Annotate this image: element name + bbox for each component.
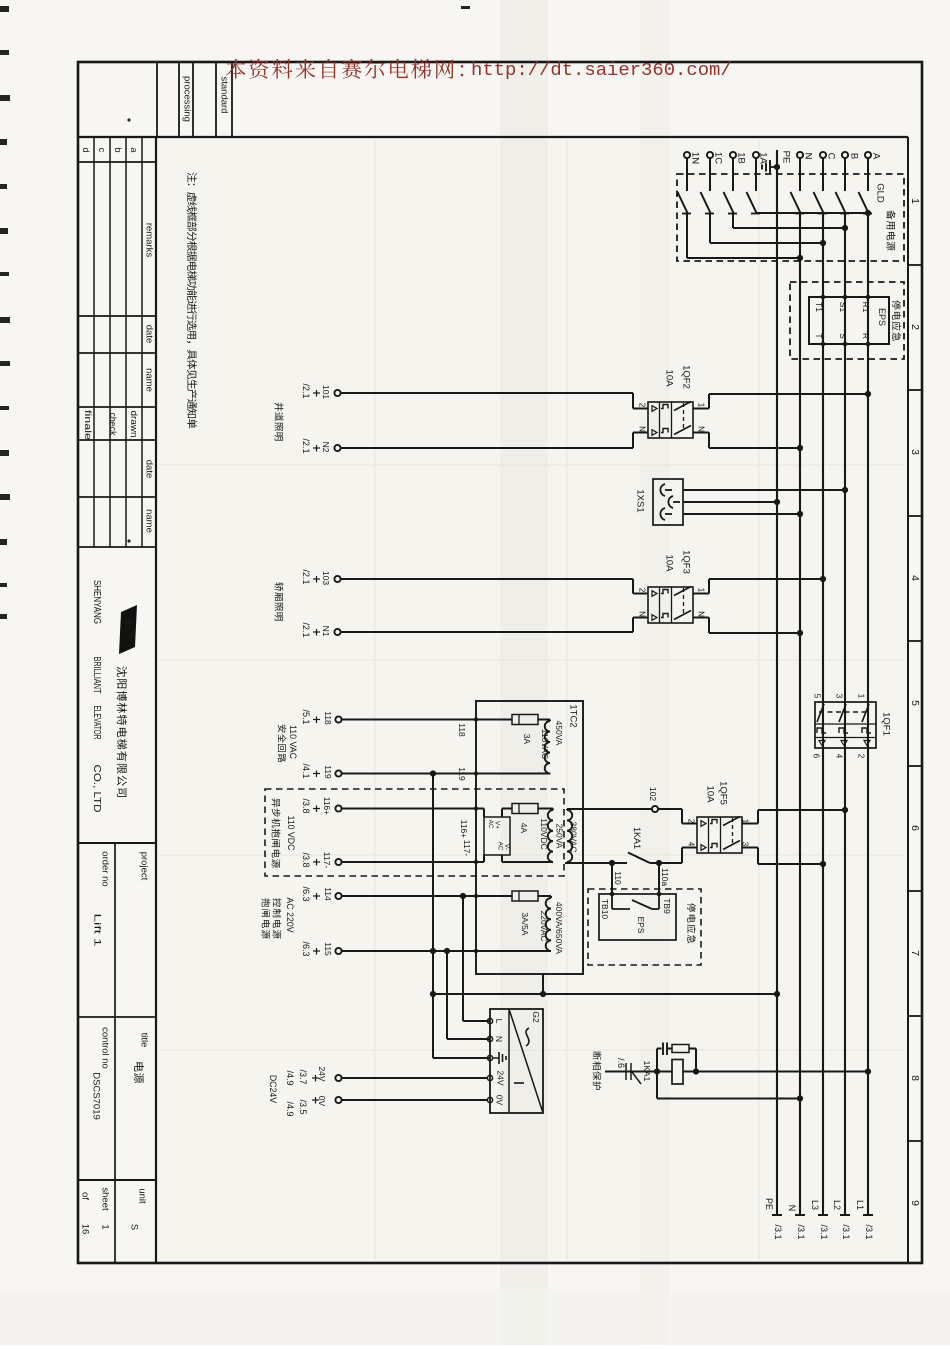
svg-text:AC: AC: [497, 842, 504, 851]
GLD chinese label beiyong dianyuan: [886, 210, 895, 250]
svg-text:110: 110: [613, 871, 623, 885]
svg-text:N: N: [494, 1036, 504, 1042]
wire 1XS1 top to B: [683, 487, 848, 493]
EPS dashed box: [790, 282, 904, 359]
company cell: SHENYANG BRILLIANT ELEVATOR CO., LTD: [91, 580, 103, 813]
svg-text:6: 6: [909, 825, 921, 831]
PE bonding wire: [430, 991, 780, 997]
zone numbers 1-9: [909, 198, 921, 1206]
svg-text:http://dt.saier360.com/: http://dt.saier360.com/: [471, 59, 732, 81]
svg-text:V+: V+: [494, 821, 501, 829]
svg-text:2: 2: [638, 588, 647, 593]
svg-text:/3.1: /3.1: [773, 1224, 783, 1239]
svg-text:remarks: remarks: [144, 223, 155, 258]
svg-text:T1: T1: [814, 302, 824, 312]
GLD backup-supply dashed box: [677, 174, 904, 261]
PE trunk wire: [776, 150, 778, 1215]
terminal 118: [301, 709, 342, 725]
A trunk wire: [867, 214, 869, 1216]
sheet 1 of 16: [80, 1187, 111, 1234]
wire 1C to C: [710, 214, 826, 247]
svg-text:/6.3: /6.3: [301, 886, 311, 901]
svg-text:2: 2: [909, 324, 921, 330]
svg-text:10A: 10A: [664, 555, 675, 573]
contact 1KA1 (phase-failure relay contact): [628, 827, 650, 863]
outgoing terminal L1 /3.1: [855, 1200, 874, 1240]
wire 1QF3 pinN to N: [693, 618, 803, 637]
wire 1N to N: [687, 214, 803, 262]
svg-text:220VAC: 220VAC: [539, 910, 549, 941]
svg-text:sheet: sheet: [100, 1187, 111, 1211]
svg-text:7: 7: [909, 950, 921, 956]
svg-text:117-: 117-: [322, 852, 332, 869]
wire 115: [342, 948, 551, 954]
title block right edge: [155, 137, 157, 1263]
switch GLD pole 1N: [678, 159, 692, 214]
switch GLD pole B: [836, 159, 850, 214]
svg-text:102: 102: [648, 787, 658, 801]
dashed box async brake supply: [265, 789, 564, 876]
svg-text:PE: PE: [764, 1198, 774, 1210]
svg-text:GLD: GLD: [875, 183, 886, 203]
wire N2: terminal to 1QF2 pinN: [341, 433, 648, 449]
terminal box TB10/TB9 EPS: [599, 892, 676, 940]
svg-text:C: C: [826, 153, 837, 160]
svg-text:date: date: [144, 460, 155, 479]
svg-text:title: title: [139, 1033, 150, 1048]
svg-text:/3.8: /3.8: [301, 798, 311, 813]
1TC2 label: [568, 704, 579, 727]
svg-text:8: 8: [909, 1075, 921, 1081]
note: dashed-frame parts selected per elevator function: [187, 172, 197, 428]
riser wire 115 to G2 N: [447, 951, 490, 1039]
control no value DSCS7019: [91, 1072, 102, 1120]
order no value Lift 1: [92, 914, 103, 947]
wire 102 to 1QF5 pin2: [659, 809, 698, 824]
terminal 0V: [285, 1096, 342, 1117]
svg-text:110 VAC: 110 VAC: [288, 725, 298, 760]
name label: [144, 368, 155, 392]
terminal N: [797, 152, 814, 160]
terminal 119: [301, 763, 342, 779]
svg-text:9: 9: [909, 1200, 921, 1206]
svg-text:1KA1: 1KA1: [642, 1061, 652, 1082]
svg-text:0V: 0V: [495, 1095, 505, 1106]
zone margin inner line: [907, 137, 909, 1263]
svg-text:/3.8: /3.8: [301, 852, 311, 867]
header label processing: [182, 76, 193, 122]
svg-text:/3.5: /3.5: [298, 1099, 308, 1114]
svg-text:A: A: [871, 153, 882, 160]
svg-text:1: 1: [697, 588, 706, 593]
label duanxiang baohu (phase failure protection): [593, 1052, 602, 1090]
svg-text:N1: N1: [321, 626, 331, 637]
1QF3 pin labels: [638, 588, 706, 617]
terminal 101: [301, 383, 341, 399]
svg-text:ELEVATOR: ELEVATOR: [91, 706, 103, 740]
svg-text:of: of: [80, 1192, 91, 1200]
wire coil to N: [657, 1072, 803, 1102]
svg-text:N: N: [697, 426, 706, 432]
bridge rectifier AC/V+ AC/V-: [484, 817, 510, 855]
name label 2: [144, 509, 155, 533]
zone separators: [908, 265, 922, 1141]
terminal 114: [301, 886, 342, 901]
svg-text:110VAC: 110VAC: [540, 729, 550, 759]
svg-text:/3.1: /3.1: [841, 1224, 851, 1239]
label jiaoxiang zhaoming (car lighting): [275, 582, 284, 620]
1QF1 label: [881, 712, 892, 736]
revision table lines: [78, 138, 156, 547]
svg-text:order no: order no: [100, 851, 111, 886]
red watermark: saier360: [226, 59, 732, 81]
EPS pin labels T S R: [814, 333, 871, 339]
svg-text:DC24V: DC24V: [268, 1075, 278, 1103]
wire 114: [342, 893, 512, 899]
terminal N2: [301, 438, 341, 453]
svg-text:B: B: [849, 153, 860, 159]
svg-text:16: 16: [80, 1224, 91, 1235]
svg-text:PE: PE: [781, 151, 792, 164]
svg-text:S1: S1: [838, 302, 848, 313]
drawn check finale labels: [83, 410, 139, 440]
1QF3 value labels: [664, 550, 692, 574]
wire 1QF3 pin1 to C: [693, 576, 826, 594]
svg-text:S: S: [838, 333, 848, 339]
transformer 1TC2 unit box: [476, 701, 583, 974]
svg-text:AC: AC: [487, 820, 494, 829]
svg-text:/4.9: /4.9: [285, 1070, 295, 1085]
remarks label: [144, 223, 155, 258]
svg-text:N: N: [787, 1205, 797, 1212]
svg-text:115: 115: [323, 942, 333, 956]
svg-text:1XS1: 1XS1: [635, 489, 646, 512]
label 110 VDC async brake supply: [272, 798, 296, 867]
svg-text:116+: 116+: [459, 820, 469, 839]
wire 1QF5 pin3 to C: [742, 848, 826, 868]
outgoing terminal L3 /3.1: [810, 1200, 829, 1240]
svg-text:1QF5: 1QF5: [718, 781, 729, 805]
svg-text:380VAC: 380VAC: [569, 821, 579, 852]
svg-text:/3.1: /3.1: [796, 1224, 806, 1239]
wire coil to L1/A: [696, 1068, 871, 1074]
terminal 102: [648, 787, 658, 812]
wire 1XS1 bottom to N: [683, 511, 803, 517]
switch GLD pole C: [814, 159, 828, 214]
svg-text:TB10: TB10: [600, 899, 610, 920]
terminal C: [820, 152, 837, 160]
svg-text:1C: 1C: [713, 152, 724, 164]
svg-text:119: 119: [323, 765, 333, 779]
1XS1 label: [635, 489, 646, 512]
svg-text:standard: standard: [219, 77, 230, 114]
wire transformer primary bottom: [565, 860, 627, 866]
scan edge marks: [0, 6, 470, 619]
breaker 1QF3 10A: [648, 587, 693, 624]
svg-text:L: L: [494, 1019, 504, 1024]
EPS bypass dashed box tingdian yingji: [588, 889, 701, 965]
svg-text:1: 1: [857, 694, 866, 699]
svg-text:/6.3: /6.3: [301, 941, 311, 956]
title value dianyuan: [134, 1062, 144, 1083]
svg-text:L3: L3: [810, 1200, 820, 1210]
svg-text:/2.1: /2.1: [301, 569, 311, 584]
svg-text:Lift 1: Lift 1: [92, 914, 103, 947]
breaker 1QF5 10A: [697, 817, 742, 854]
terminal 1A: [753, 152, 769, 165]
svg-text:R1: R1: [861, 302, 871, 313]
EPS chinese label tingdian yingji: [892, 300, 901, 341]
svg-text:DSCS7019: DSCS7019: [91, 1072, 102, 1120]
svg-text:110 VDC: 110 VDC: [286, 815, 296, 851]
svg-text:/4.9: /4.9: [285, 1101, 295, 1116]
svg-text:114: 114: [323, 887, 333, 901]
terminal 1C: [707, 152, 724, 164]
riser earth bus 119/115 to G2 earth: [433, 774, 490, 1059]
svg-text:1N: 1N: [690, 152, 701, 164]
date label 2: [144, 460, 155, 479]
terminal 116+: [301, 797, 342, 816]
transformer frame earth stub: [540, 974, 546, 997]
wire 117-: [342, 840, 484, 864]
svg-text:118: 118: [457, 723, 467, 737]
svg-text:1QF2: 1QF2: [681, 365, 692, 389]
svg-text:/2.1: /2.1: [301, 383, 311, 398]
wire 1QF2 pin1 to A: [693, 391, 871, 409]
svg-text:4: 4: [835, 754, 844, 759]
wire 24V output: [342, 1077, 487, 1079]
svg-text:T: T: [814, 333, 824, 338]
1QF5 value labels: [705, 781, 729, 805]
wire 1B to B: [733, 214, 848, 232]
label jingdao zhaoming (shaft lighting): [275, 403, 284, 441]
N trunk wire: [799, 214, 801, 1216]
svg-text:c: c: [97, 148, 107, 153]
project label: [139, 852, 150, 881]
svg-text:4: 4: [687, 842, 696, 847]
svg-text:AC 220V: AC 220V: [285, 897, 295, 932]
PSU G2: [487, 1009, 543, 1113]
svg-text:5: 5: [909, 700, 921, 706]
wire 119: [341, 767, 551, 781]
terminal A: [865, 152, 882, 160]
svg-text:R: R: [861, 333, 871, 339]
EPS label: [877, 308, 887, 326]
svg-text:10A: 10A: [705, 786, 716, 804]
contact TB10-TB9: [612, 894, 659, 909]
svg-text:b: b: [113, 147, 123, 152]
breaker 1QF1 (3-pole): [815, 702, 876, 748]
svg-text:400VA/650VA: 400VA/650VA: [554, 902, 564, 954]
control no label: [100, 1027, 111, 1069]
svg-text:name: name: [144, 509, 155, 533]
svg-text:119: 119: [457, 767, 467, 781]
switch GLD pole 1C: [701, 159, 715, 214]
C trunk wire: [822, 214, 824, 1216]
header band cell dividers: [157, 62, 232, 137]
order no label: [100, 851, 111, 886]
wire 1XS1 mid to PE: [683, 499, 780, 505]
header band bottom line: [78, 136, 908, 138]
1QF5 pin labels: [687, 819, 750, 847]
svg-text:V-: V-: [503, 844, 510, 850]
net label PE: [781, 151, 792, 164]
svg-text:118: 118: [323, 711, 333, 725]
EPS pin labels T1 S1 R1: [814, 302, 871, 313]
svg-text:BLT: BLT: [123, 618, 134, 640]
switch GLD pole 1A: [747, 159, 761, 214]
svg-text:processing: processing: [182, 76, 193, 122]
svg-text:4: 4: [909, 575, 921, 581]
svg-text:1QF1: 1QF1: [881, 712, 892, 736]
svg-text:N: N: [803, 153, 814, 160]
svg-text:S: S: [129, 1224, 140, 1230]
1QF2 pin labels: [638, 403, 706, 432]
svg-text:1: 1: [909, 198, 921, 204]
ground symbol on PE: [762, 160, 780, 174]
svg-text:EPS: EPS: [636, 916, 646, 933]
terminal 24V: [285, 1066, 342, 1085]
svg-text:2: 2: [857, 754, 866, 759]
RC snubber: capacitor + resistor: [657, 1043, 696, 1072]
1QF2 value labels: [664, 365, 692, 389]
svg-text:/5.1: /5.1: [301, 709, 311, 724]
svg-text:0V: 0V: [317, 1096, 327, 1107]
svg-text:finale: finale: [83, 410, 93, 440]
svg-text:5: 5: [813, 694, 822, 699]
svg-text:1: 1: [100, 1224, 111, 1229]
svg-text:450VA: 450VA: [554, 721, 564, 746]
svg-text:N: N: [638, 426, 647, 432]
svg-text:10A: 10A: [664, 370, 675, 388]
svg-text:/2.1: /2.1: [301, 622, 311, 637]
revision letters d c b a: [81, 147, 139, 152]
svg-text:1TC2: 1TC2: [568, 704, 579, 727]
date label: [144, 325, 155, 344]
switch GLD pole 1B: [724, 159, 738, 214]
wire 1A to A: [756, 210, 871, 216]
svg-text:3: 3: [835, 694, 844, 699]
svg-text:3: 3: [741, 842, 750, 847]
wire 0V output: [342, 1099, 487, 1101]
svg-text:/.6: /.6: [616, 1058, 626, 1068]
1QF1 pin labels 5 3 1 / 6 4 2: [812, 694, 866, 759]
svg-text:101: 101: [321, 385, 331, 399]
svg-text:unit: unit: [137, 1188, 148, 1204]
svg-text:24V: 24V: [317, 1066, 327, 1081]
switch GLD pole A: [859, 159, 873, 214]
wire 110a: [659, 863, 670, 894]
company chinese name: [117, 666, 127, 796]
socket 1XS1: [653, 479, 683, 525]
svg-text:2: 2: [687, 819, 696, 824]
svg-text:date: date: [144, 325, 155, 344]
1TC2 winding 220VAC with 3A/5A fuse: [512, 891, 564, 954]
wire contact to 1QF5 pin4: [650, 848, 697, 867]
svg-text:d: d: [81, 147, 91, 152]
svg-text:250VA: 250VA: [555, 824, 565, 849]
svg-text:/3.7: /3.7: [298, 1069, 308, 1084]
svg-text:110a: 110a: [660, 868, 670, 887]
svg-text:/3.1: /3.1: [819, 1224, 829, 1239]
1TC2 winding 450VA 110VAC with 3A fuse: [512, 715, 564, 774]
title label: [139, 1033, 150, 1048]
svg-text:L1: L1: [855, 1200, 865, 1210]
contact-reference mark /.6: [605, 1058, 657, 1084]
svg-text:BRILLIANT: BRILLIANT: [91, 657, 103, 694]
svg-text:project: project: [139, 852, 150, 881]
svg-text:EPS: EPS: [877, 308, 887, 326]
terminal 1N: [684, 152, 701, 164]
svg-text:N2: N2: [321, 442, 331, 453]
svg-text:control no: control no: [100, 1027, 111, 1069]
wire 116+: [342, 806, 484, 838]
wire 103: terminal to 1QF3 pin2: [341, 579, 648, 594]
svg-text:name: name: [144, 368, 155, 392]
terminal 1B: [730, 152, 747, 164]
wire 110: [612, 863, 623, 894]
svg-text:drawn: drawn: [129, 411, 139, 438]
svg-text:check: check: [108, 413, 118, 436]
svg-text:1: 1: [697, 403, 706, 408]
breaker 1QF2 10A: [648, 402, 693, 439]
svg-text:3A/5A: 3A/5A: [520, 912, 530, 935]
terminal 117-: [301, 852, 342, 869]
svg-text:3A: 3A: [522, 734, 532, 745]
relay coil 1KA1: [642, 1060, 699, 1085]
svg-text:1QF3: 1QF3: [681, 550, 692, 574]
terminal B: [842, 152, 860, 159]
outgoing terminal N /3.1: [787, 1205, 806, 1240]
svg-text:110VDC: 110VDC: [539, 818, 549, 850]
svg-text:TB9: TB9: [662, 898, 672, 914]
svg-text:G2: G2: [531, 1011, 541, 1023]
svg-text:117-: 117-: [462, 840, 472, 857]
wire 1QF2 pinN to N: [693, 433, 803, 452]
terminal N1: [301, 622, 341, 637]
svg-text:/3.1: /3.1: [864, 1224, 874, 1239]
1TC2 primary 380VAC: [567, 809, 651, 863]
outer drawing frame: [78, 62, 922, 1263]
svg-text:SHENYANG: SHENYANG: [91, 580, 103, 624]
svg-text:3: 3: [909, 449, 921, 455]
BLT logo: [119, 605, 137, 654]
label DC24V: [268, 1075, 278, 1103]
outgoing terminal L2 /3.1: [832, 1200, 851, 1240]
svg-text:/2.1: /2.1: [301, 438, 311, 453]
wire 101: terminal to 1QF2 pin2: [341, 393, 648, 409]
riser wire 114 to G2 L: [463, 896, 490, 1021]
svg-text:116+: 116+: [322, 797, 332, 816]
GLD label: [875, 183, 886, 203]
svg-text:103: 103: [321, 571, 331, 585]
svg-text:1KA1: 1KA1: [632, 827, 642, 849]
terminal 115: [301, 941, 342, 956]
svg-text:24V: 24V: [496, 1070, 506, 1085]
svg-text:4A: 4A: [519, 823, 529, 834]
svg-text:1B: 1B: [736, 152, 747, 164]
label AC 220V control/brake supply: [262, 897, 295, 938]
wire N1: terminal to 1QF3 pinN: [341, 618, 648, 633]
svg-text:/4.1: /4.1: [301, 763, 311, 778]
svg-text:L2: L2: [832, 1200, 842, 1210]
svg-text:N: N: [697, 611, 706, 617]
B trunk wire: [844, 214, 846, 1216]
label 110 VAC safety circuit: [278, 725, 298, 763]
switch GLD pole N: [791, 159, 805, 214]
wire 1QF5 pin1 to B: [742, 807, 848, 824]
1TC2 winding 110VDC with 4A fuse: [502, 804, 565, 863]
